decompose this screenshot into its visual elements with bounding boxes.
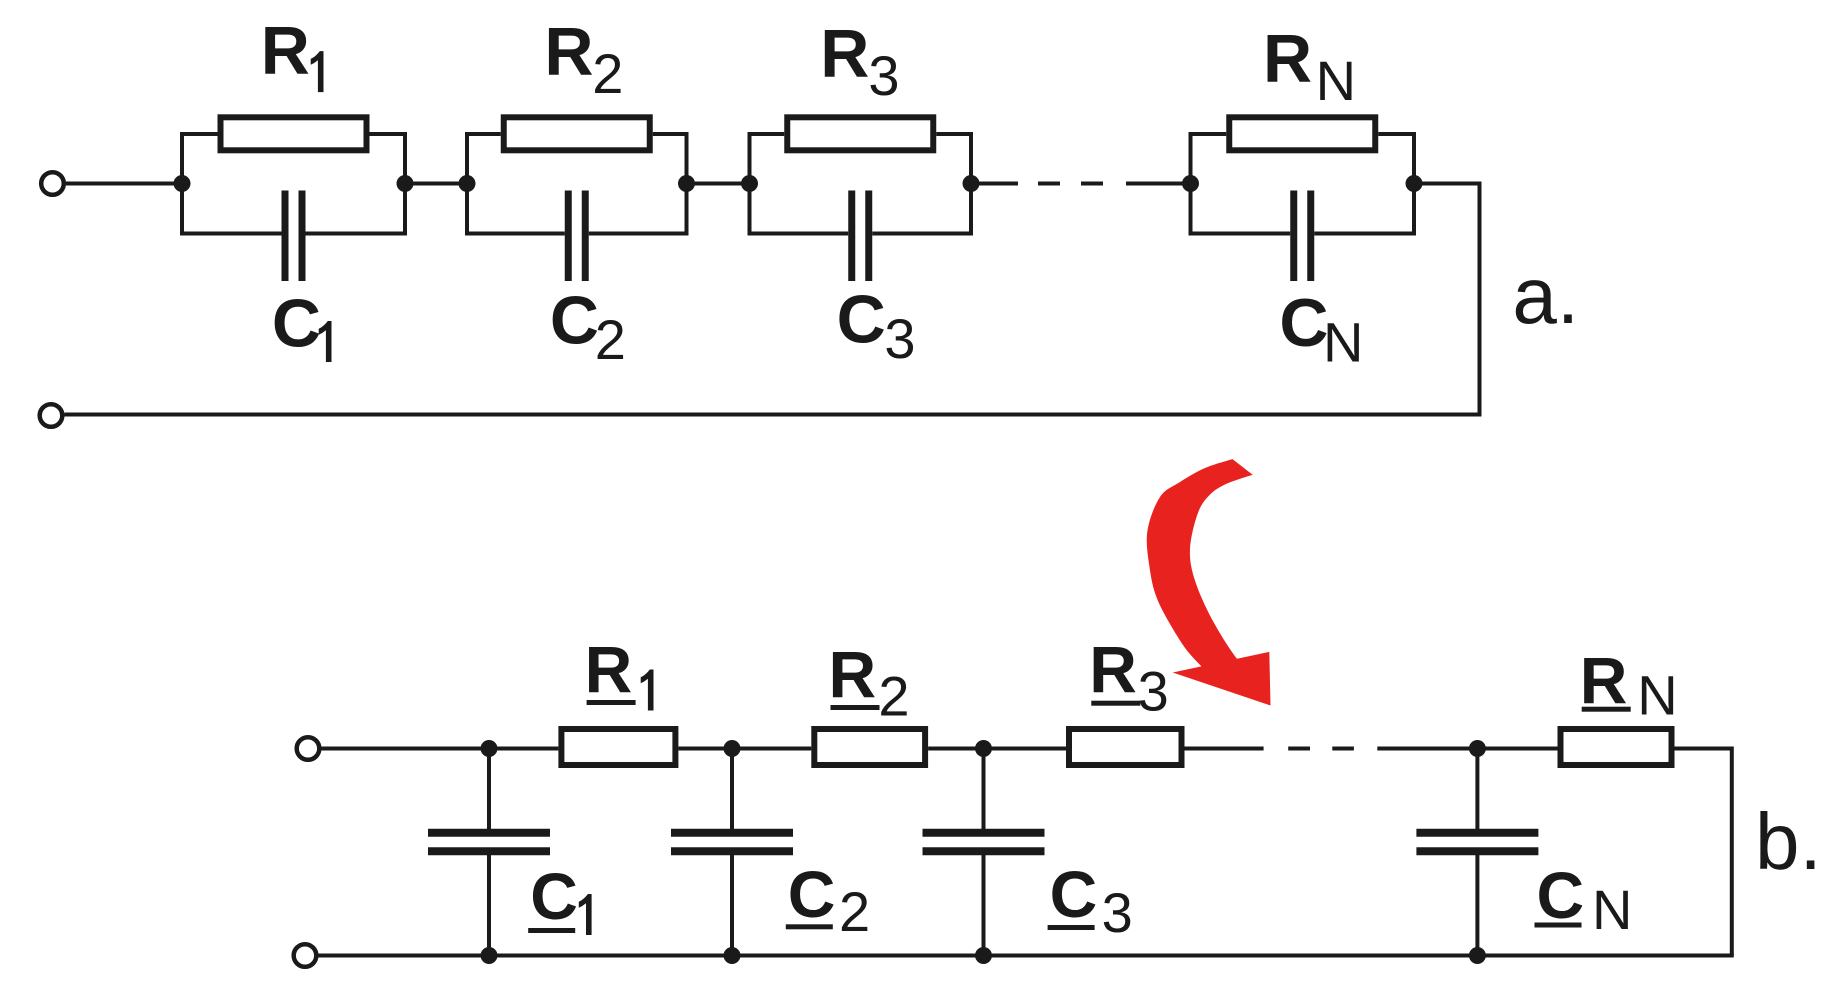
resistor R2 body (circuit a) bbox=[504, 117, 650, 150]
wire: top branch right segment block 3 bbox=[936, 132, 973, 136]
capacitor C3 plates (circuit a) bbox=[848, 191, 855, 282]
wire: left vertical of parallel block N bbox=[1189, 134, 1193, 234]
wire: node 3 down to capacitor C3 (circuit b) bbox=[982, 749, 986, 830]
wire: between block 2 and block 3 bbox=[687, 182, 750, 186]
capacitor CN plates (circuit a) bbox=[1290, 191, 1297, 282]
wire: R2 right to R3 left (circuit b) bbox=[928, 747, 1066, 751]
capacitor CN plates (circuit b) bbox=[1416, 829, 1538, 837]
svg-text:R: R bbox=[1089, 632, 1137, 706]
terminal: circuit a bottom-left bbox=[40, 404, 63, 427]
svg-text:3: 3 bbox=[1138, 660, 1169, 723]
wire: capacitor C3 to bottom rail (circuit b) bbox=[982, 855, 986, 956]
svg-text:b.: b. bbox=[1755, 797, 1822, 886]
wire: left vertical of parallel block 1 bbox=[180, 134, 184, 234]
wire: bottom branch right segment block 1 bbox=[306, 232, 408, 236]
node block2 right junction dot (circuit a) bbox=[678, 175, 695, 192]
svg-text:N: N bbox=[1323, 311, 1363, 374]
wire: bottom branch left segment block 3 bbox=[748, 232, 849, 236]
wire: left vertical of parallel block 3 bbox=[748, 134, 752, 234]
wire: right vertical of parallel block 1 bbox=[403, 134, 407, 234]
node block3 right junction dot (circuit a) bbox=[963, 175, 980, 192]
wire: input lead to node 1a bbox=[66, 182, 182, 186]
svg-text:2: 2 bbox=[878, 665, 909, 728]
capacitor C1 plates (circuit a) bbox=[282, 191, 289, 282]
wire: top branch left segment block 2 bbox=[465, 132, 501, 136]
resistor R3 body (circuit b) bbox=[1069, 729, 1182, 765]
svg-text:3: 3 bbox=[884, 307, 915, 370]
wire: bottom branch right segment block N bbox=[1314, 232, 1416, 236]
wire: capacitor C2 to bottom rail (circuit b) bbox=[730, 855, 734, 956]
wire: RN right to right corner (circuit b) bbox=[1675, 747, 1732, 751]
node block1 left junction dot (circuit a) bbox=[174, 175, 191, 192]
svg-text:R: R bbox=[829, 637, 877, 711]
svg-text:R: R bbox=[1580, 643, 1628, 717]
resistor R1 body (circuit b) bbox=[561, 729, 675, 765]
resistor R2 body (circuit b) bbox=[814, 729, 925, 765]
resistor RN body (circuit b) bbox=[1561, 729, 1672, 765]
resistor RN body (circuit a) bbox=[1229, 117, 1375, 150]
svg-text:a.: a. bbox=[1512, 251, 1579, 340]
svg-text:C: C bbox=[530, 859, 578, 933]
red arrowhead bbox=[1173, 652, 1271, 706]
wire: input lead to node 1b bbox=[320, 747, 558, 751]
node block2 left junction dot (circuit a) bbox=[459, 175, 476, 192]
wire: bottom branch left segment block 2 bbox=[465, 232, 565, 236]
wire: capacitor C1 to bottom rail (circuit b) bbox=[487, 855, 491, 956]
wire: right vertical of parallel block 2 bbox=[685, 134, 689, 234]
node 2 top junction dot (circuit b) bbox=[724, 740, 741, 757]
node 2 bottom junction dot (circuit b) bbox=[724, 947, 741, 964]
svg-text:N: N bbox=[1316, 49, 1356, 112]
svg-text:2: 2 bbox=[595, 308, 626, 371]
wire: block N to right corner bbox=[1414, 182, 1480, 186]
wire: left vertical of parallel block 2 bbox=[465, 134, 469, 234]
terminal: circuit a top-left input bbox=[41, 172, 64, 195]
svg-text:R: R bbox=[820, 15, 869, 91]
wire: node N down to capacitor CN (circuit b) bbox=[1475, 749, 1479, 830]
svg-text:2: 2 bbox=[839, 880, 870, 943]
node 1 top junction dot (circuit b) bbox=[481, 740, 498, 757]
wire: between block 1 and block 2 bbox=[405, 182, 467, 186]
wire: bottom branch right segment block 2 bbox=[589, 232, 689, 236]
capacitor C3 plates (circuit b) bbox=[923, 829, 1045, 837]
wire: top branch right segment block 2 bbox=[653, 132, 689, 136]
svg-text:C: C bbox=[788, 857, 836, 931]
wire: dashed continuation after R3 (circuit b) bbox=[1185, 747, 1264, 751]
svg-text:R: R bbox=[1263, 21, 1312, 97]
node N bottom junction dot (circuit b) bbox=[1469, 947, 1486, 964]
wire: right vertical return (circuit a) bbox=[1478, 182, 1482, 415]
node 3 top junction dot (circuit b) bbox=[975, 740, 992, 757]
wire: bottom branch left segment block N bbox=[1189, 232, 1291, 236]
wire: right vertical of parallel block N bbox=[1412, 134, 1416, 234]
wire: right vertical return (circuit b) bbox=[1730, 747, 1734, 956]
wire: capacitor CN to bottom rail (circuit b) bbox=[1475, 855, 1479, 956]
wire: bottom return rail (circuit a) bbox=[65, 413, 1482, 417]
svg-text:R: R bbox=[585, 632, 633, 706]
svg-text:C: C bbox=[550, 283, 599, 359]
svg-text:C: C bbox=[1050, 857, 1098, 931]
svg-text:N: N bbox=[1592, 878, 1632, 941]
wire: R1 right to R2 left (circuit b) bbox=[678, 747, 811, 751]
wire: top branch right segment block N bbox=[1378, 132, 1416, 136]
capacitor C2 plates (circuit b) bbox=[671, 829, 793, 837]
terminal: circuit b top-left input bbox=[297, 737, 320, 760]
wire: node 2 down to capacitor C2 (circuit b) bbox=[730, 749, 734, 830]
node block3 left junction dot (circuit a) bbox=[741, 175, 758, 192]
svg-text:N: N bbox=[1637, 663, 1677, 726]
svg-text:R: R bbox=[544, 14, 593, 90]
wire: dashed continuation between block 3 and block N bbox=[971, 182, 1018, 186]
wire: top branch left segment block 3 bbox=[748, 132, 785, 136]
svg-text:3: 3 bbox=[868, 44, 899, 107]
svg-text:2: 2 bbox=[592, 42, 623, 105]
capacitor C1 plates (circuit b) bbox=[428, 829, 550, 837]
node blockN right junction dot (circuit a) bbox=[1406, 175, 1423, 192]
node blockN left junction dot (circuit a) bbox=[1182, 175, 1199, 192]
node N top junction dot (circuit b) bbox=[1469, 740, 1486, 757]
resistor R1 body (circuit a) bbox=[221, 117, 367, 150]
svg-text:C: C bbox=[272, 286, 321, 362]
svg-text:R: R bbox=[261, 13, 310, 89]
wire: right vertical of parallel block 3 bbox=[969, 134, 973, 234]
capacitor C2 plates (circuit a) bbox=[565, 191, 572, 282]
svg-text:C: C bbox=[1279, 285, 1328, 361]
node 1 bottom junction dot (circuit b) bbox=[481, 947, 498, 964]
wire: top branch left segment block N bbox=[1189, 132, 1227, 136]
svg-text:3: 3 bbox=[1102, 881, 1133, 944]
resistor R3 body (circuit a) bbox=[787, 117, 933, 150]
node block1 right junction dot (circuit a) bbox=[397, 175, 414, 192]
node 3 bottom junction dot (circuit b) bbox=[975, 947, 992, 964]
wire: top branch right segment block 1 bbox=[370, 132, 408, 136]
svg-text:C: C bbox=[1537, 858, 1585, 932]
terminal: circuit b bottom-left bbox=[294, 944, 317, 967]
red curved transform arrow (a to b) bbox=[1147, 459, 1253, 676]
svg-text:C: C bbox=[837, 281, 886, 357]
wire: top branch left segment block 1 bbox=[180, 132, 218, 136]
wire: bottom rail (circuit b) bbox=[317, 954, 1734, 958]
wire: bottom branch left segment block 1 bbox=[180, 232, 282, 236]
wire: bottom branch right segment block 3 bbox=[872, 232, 973, 236]
wire: node 1 down to capacitor C1 (circuit b) bbox=[487, 749, 491, 830]
